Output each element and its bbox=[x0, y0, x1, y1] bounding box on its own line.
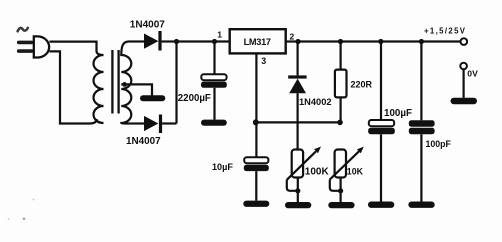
scan speck bbox=[23, 218, 26, 221]
diode D2 1N4007 bbox=[144, 115, 177, 134]
diode D1 1N4007 bbox=[144, 31, 177, 51]
svg-text:220R: 220R bbox=[351, 79, 373, 89]
ground C2 bbox=[243, 201, 269, 207]
ground 0V bbox=[451, 98, 478, 104]
terminal output bbox=[461, 38, 468, 45]
wire output rail bbox=[298, 40, 460, 42]
terminal 0V bbox=[460, 63, 467, 70]
svg-text:2200µF: 2200µF bbox=[178, 93, 211, 104]
svg-text:1N4002: 1N4002 bbox=[299, 97, 332, 107]
potentiometer P2 10K bbox=[330, 147, 364, 202]
potentiometer P1 100K bbox=[287, 147, 321, 203]
node C1 branch bbox=[212, 39, 217, 44]
svg-text:1N4007: 1N4007 bbox=[130, 19, 165, 30]
svg-text:2: 2 bbox=[290, 31, 295, 41]
wire U1 pin3 bbox=[255, 53, 257, 157]
resistor R1 220R bbox=[335, 70, 347, 98]
node pin3 adjust bbox=[253, 119, 259, 125]
wire adjust line bbox=[256, 121, 340, 123]
capacitor C2 10µF bbox=[244, 157, 269, 200]
svg-text:+1,5/25V: +1,5/25V bbox=[424, 27, 466, 36]
wire C1 branch bbox=[213, 42, 215, 75]
svg-text:LM317: LM317 bbox=[244, 37, 271, 47]
node pin2 bbox=[295, 39, 300, 44]
wire R1 to adjust line bbox=[340, 97, 342, 122]
svg-text:100µF: 100µF bbox=[384, 108, 412, 119]
svg-text:10µF: 10µF bbox=[212, 162, 233, 172]
ground C4 bbox=[408, 202, 434, 208]
node adjust right bbox=[337, 120, 343, 126]
capacitor C1 2200µF bbox=[201, 74, 227, 119]
wire 0V to ground bbox=[463, 70, 465, 98]
transformer T1 primary winding bbox=[94, 55, 104, 123]
wire C4 branch bbox=[420, 42, 422, 121]
AC source symbol bbox=[18, 28, 28, 32]
scan speck bbox=[8, 218, 10, 220]
wire D3 branch upper bbox=[297, 42, 299, 76]
svg-text:1: 1 bbox=[217, 30, 222, 40]
wire secondary bottom to D2 bbox=[128, 122, 144, 124]
ground C1 bbox=[201, 120, 227, 126]
ground P1 bbox=[285, 202, 311, 208]
wire rectifier output vertical bbox=[175, 42, 177, 124]
wire U1 pin2 to rail bbox=[286, 40, 298, 42]
node rectifier output bbox=[174, 39, 179, 44]
wire center tap bbox=[121, 84, 152, 95]
wire rail to U1 pin1 bbox=[177, 40, 230, 42]
wire R1 branch upper bbox=[340, 42, 342, 70]
wire secondary top to D1 bbox=[128, 40, 144, 42]
transformer core bbox=[112, 50, 118, 114]
svg-text:3: 3 bbox=[261, 56, 266, 66]
ground C3 bbox=[368, 202, 394, 208]
wire primary loop bbox=[50, 42, 104, 55]
svg-text:100K: 100K bbox=[305, 166, 330, 177]
diode D3 1N4002 bbox=[288, 75, 306, 149]
node R1 branch bbox=[338, 39, 343, 44]
svg-text:10K: 10K bbox=[347, 166, 364, 176]
svg-text:0V: 0V bbox=[467, 68, 478, 78]
mains plug P bbox=[17, 36, 49, 57]
wire C3 branch bbox=[380, 42, 382, 121]
regulator U1 LM317 bbox=[230, 29, 286, 53]
ground P2 bbox=[328, 202, 354, 208]
transformer T1 secondary winding bbox=[121, 42, 131, 124]
capacitor C3 100µF bbox=[368, 120, 395, 202]
ground center tap bbox=[140, 95, 165, 101]
svg-text:100pF: 100pF bbox=[426, 139, 452, 149]
capacitor C4 100pF bbox=[409, 120, 435, 201]
node C3 branch bbox=[378, 39, 383, 44]
scan speck bbox=[33, 199, 35, 201]
svg-text:1N4007: 1N4007 bbox=[126, 136, 161, 147]
node C4 branch bbox=[419, 39, 424, 44]
node center tap bbox=[122, 82, 127, 87]
